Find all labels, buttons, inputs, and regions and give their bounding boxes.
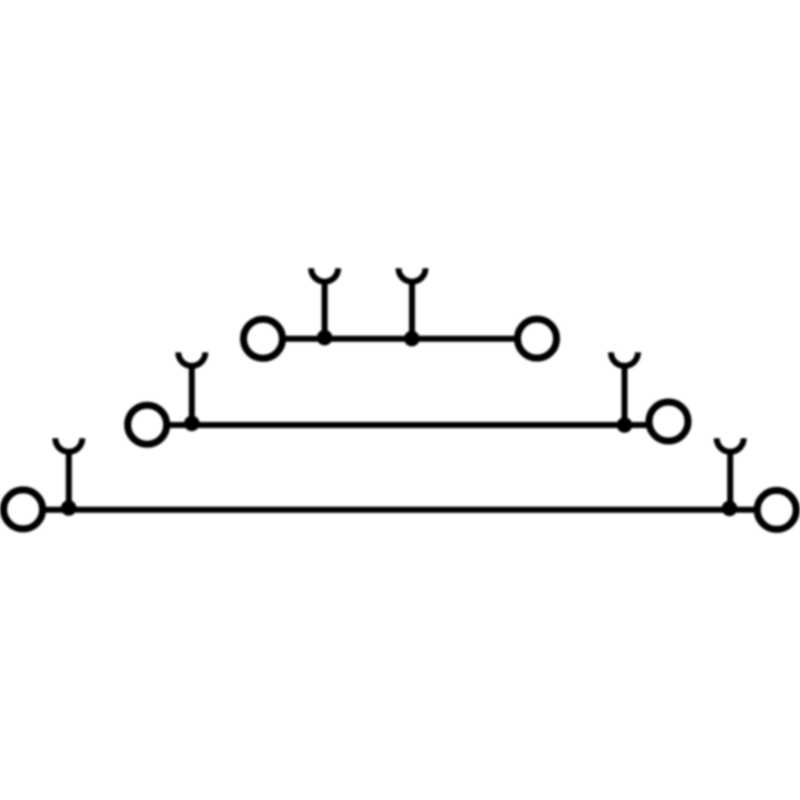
junction dot level-2 a xyxy=(184,416,200,432)
terminal circle level-2 right xyxy=(649,402,688,441)
test socket level-2 b xyxy=(611,352,638,425)
test socket level-1 a xyxy=(55,438,82,509)
test socket level-1 b xyxy=(717,438,744,509)
wire level-1 bus xyxy=(45,507,754,513)
junction dot level-1 b xyxy=(722,501,738,517)
terminal circle level-1 left xyxy=(4,490,43,529)
terminal circle level-3 left xyxy=(244,319,283,358)
terminal circle level-1 right xyxy=(757,490,796,529)
junction dot level-1 a xyxy=(61,500,77,516)
junction dot level-3 b xyxy=(404,331,420,347)
test socket level-3 b xyxy=(399,268,426,339)
test socket level-2 a xyxy=(178,352,205,425)
test socket level-3 a xyxy=(311,268,338,339)
terminal circle level-3 right xyxy=(518,319,557,358)
wire level-2 bus xyxy=(169,422,646,428)
junction dot level-2 b xyxy=(617,417,633,433)
terminal circle level-2 left xyxy=(128,405,167,444)
junction dot level-3 a xyxy=(317,330,333,346)
wire level-3 bus xyxy=(285,336,514,342)
